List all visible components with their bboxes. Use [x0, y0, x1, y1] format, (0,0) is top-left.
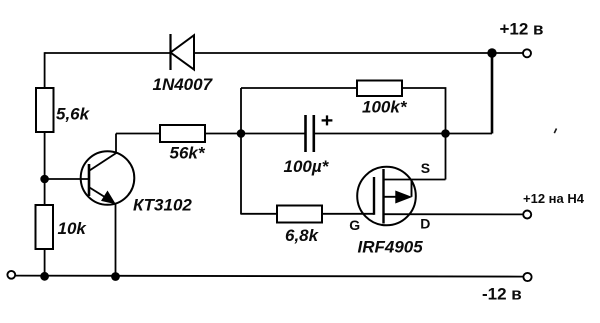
- wire: node to capacitor: [241, 133, 305, 135]
- svg-text:1N4007: 1N4007: [153, 75, 214, 94]
- wire: base wire to transistor: [45, 178, 89, 180]
- resistor R5 6,8k: [277, 206, 322, 223]
- wire: source wire down from node C: [445, 134, 447, 180]
- pin label S: [421, 160, 430, 176]
- wire: drain to output terminal: [384, 213, 523, 215]
- svg-text:S: S: [421, 160, 430, 176]
- terminal: -12 open circle right: [523, 273, 531, 281]
- node D: +12 rail junction: [487, 48, 496, 57]
- wire: top branch to 100k: [241, 87, 357, 89]
- terminal: +12 input open circle: [523, 49, 531, 57]
- svg-text:100k*: 100k*: [362, 98, 408, 117]
- wire: collector up from transistor: [115, 134, 117, 153]
- terminal: -12 open circle left: [7, 271, 15, 279]
- svg-text:IRF4905: IRF4905: [358, 238, 424, 257]
- wire: 100k right lead: [402, 88, 446, 134]
- resistor R2 10k: [36, 205, 54, 249]
- svg-text:+12 в: +12 в: [500, 20, 544, 39]
- resistor R4 100k*: [357, 81, 402, 97]
- wire: emitter down to bottom rail: [115, 203, 117, 276]
- wire: bottom -12 rail: [15, 276, 523, 277]
- wire: left rail middle segment: [44, 132, 46, 206]
- svg-text:56k*: 56k*: [170, 144, 206, 163]
- svg-text:5,6k: 5,6k: [56, 105, 91, 124]
- mosfet Q2 IRF4905: [357, 167, 416, 226]
- node A: junction left rail / base wire: [40, 175, 49, 184]
- wire: thick vertical from +12 node: [491, 53, 494, 134]
- diode VD1 1N4007: [171, 34, 195, 70]
- svg-text:D: D: [420, 216, 430, 232]
- node C: junction cap / 100k / source: [441, 129, 450, 138]
- net label +12 na H4: [523, 191, 585, 206]
- stray mark: small apostrophe speck: [554, 129, 556, 134]
- capacitor C1 100u polarized: [306, 115, 333, 152]
- svg-text:10k: 10k: [58, 219, 88, 238]
- value label 1N4007: [153, 75, 214, 94]
- net label +12 V: [500, 20, 544, 39]
- svg-text:6,8k: 6,8k: [285, 226, 320, 245]
- value label 6,8k: [285, 226, 320, 245]
- wire: left rail bottom segment: [44, 249, 46, 276]
- resistor R3 56k*: [160, 125, 205, 142]
- pin label D: [420, 216, 430, 232]
- wire: top +12 rail right segment: [194, 52, 523, 54]
- resistor R1 5,6k: [36, 88, 54, 132]
- svg-text:КТ3102: КТ3102: [133, 196, 192, 215]
- wire: 6,8k to gate: [322, 213, 374, 215]
- wire: left rail top segment: [44, 52, 46, 88]
- net label -12 V: [482, 285, 522, 304]
- wire: bridge left vertical: [240, 88, 242, 215]
- value label 56k*: [170, 144, 206, 163]
- value label 10k: [58, 219, 88, 238]
- svg-text:G: G: [349, 217, 360, 233]
- svg-text:-12 в: -12 в: [482, 285, 522, 304]
- svg-text:+12 на Н4: +12 на Н4: [523, 191, 585, 206]
- transistor Q1 KT3102: [81, 151, 135, 205]
- part label KT3102: [133, 196, 192, 215]
- wire: node C to +12 vertical: [446, 133, 493, 135]
- node B: main junction: [237, 129, 246, 138]
- value label 100u*: [284, 157, 330, 176]
- wire: top +12 rail left segment: [45, 52, 171, 54]
- wire: collector horizontal to 56k: [116, 133, 160, 135]
- terminal: +12 to H4 open circle: [523, 211, 531, 219]
- value label 5,6k: [56, 105, 91, 124]
- svg-text:100µ*: 100µ*: [284, 157, 330, 176]
- wire: source horizontal into mosfet: [384, 179, 446, 181]
- wire: gate row left lead: [241, 213, 277, 215]
- wire: capacitor to node C: [315, 133, 446, 135]
- node F: emitter to bottom rail: [111, 272, 120, 281]
- pin label G: [349, 217, 360, 233]
- value label 100k*: [362, 98, 408, 117]
- node E: 10k to bottom rail: [40, 272, 49, 281]
- part label IRF4905: [358, 238, 424, 257]
- wire: 56k to node: [205, 133, 241, 135]
